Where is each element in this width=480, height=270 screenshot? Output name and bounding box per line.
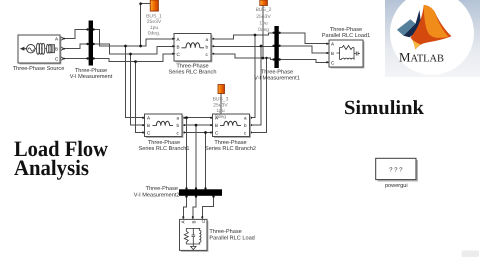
svg-text:Parallel RLC Load: Parallel RLC Load bbox=[209, 234, 254, 241]
svg-text:Parallel RLC Load1: Parallel RLC Load1 bbox=[322, 32, 371, 39]
svg-text:a: a bbox=[206, 37, 209, 42]
svg-text:? ? ?: ? ? ? bbox=[389, 167, 403, 174]
svg-text:0deg.: 0deg. bbox=[148, 30, 161, 36]
svg-text:Series RLC Branch2: Series RLC Branch2 bbox=[205, 145, 256, 152]
svg-text:0deg: 0deg bbox=[258, 27, 269, 33]
svg-text:b: b bbox=[244, 123, 247, 128]
svg-text:b: b bbox=[177, 123, 180, 128]
svg-text:Simulink: Simulink bbox=[344, 97, 425, 119]
svg-text:A: A bbox=[180, 220, 185, 223]
svg-text:B: B bbox=[177, 44, 180, 49]
svg-text:Series RLC Branch1: Series RLC Branch1 bbox=[139, 145, 190, 152]
svg-text:a: a bbox=[177, 116, 180, 121]
svg-text:Series RLC Branch: Series RLC Branch bbox=[169, 69, 217, 76]
svg-text:a: a bbox=[244, 116, 247, 121]
svg-text:B: B bbox=[215, 123, 218, 128]
svg-text:1pu: 1pu bbox=[259, 21, 268, 27]
svg-text:B: B bbox=[55, 47, 58, 52]
svg-text:Three-Phase: Three-Phase bbox=[261, 69, 293, 76]
svg-text:Three-Phase: Three-Phase bbox=[214, 139, 246, 146]
svg-text:Three-Phase: Three-Phase bbox=[148, 139, 180, 146]
svg-text:B: B bbox=[191, 220, 196, 223]
svg-text:Analysis: Analysis bbox=[14, 155, 89, 180]
svg-text:V-I Measurement2: V-I Measurement2 bbox=[134, 193, 180, 199]
svg-text:Three-Phase: Three-Phase bbox=[75, 67, 107, 74]
svg-text:Three-Phase: Three-Phase bbox=[209, 228, 241, 235]
svg-text:25e3V: 25e3V bbox=[256, 14, 271, 20]
svg-text:0deg: 0deg bbox=[215, 114, 226, 120]
svg-text:Three-Phase Source: Three-Phase Source bbox=[13, 65, 65, 72]
svg-text:b: b bbox=[206, 44, 209, 49]
svg-text:Three-Phase: Three-Phase bbox=[146, 185, 178, 192]
svg-text:Three-Phase: Three-Phase bbox=[176, 62, 208, 69]
svg-text:V-I Measurement: V-I Measurement bbox=[70, 74, 113, 80]
svg-text:B: B bbox=[147, 123, 150, 128]
svg-text:Three-Phase: Three-Phase bbox=[330, 26, 362, 33]
svg-text:B: B bbox=[331, 51, 334, 56]
svg-text:BUS_2: BUS_2 bbox=[256, 7, 272, 13]
svg-text:V-I Measurement1: V-I Measurement1 bbox=[254, 76, 300, 82]
svg-text:powergui: powergui bbox=[385, 182, 408, 189]
